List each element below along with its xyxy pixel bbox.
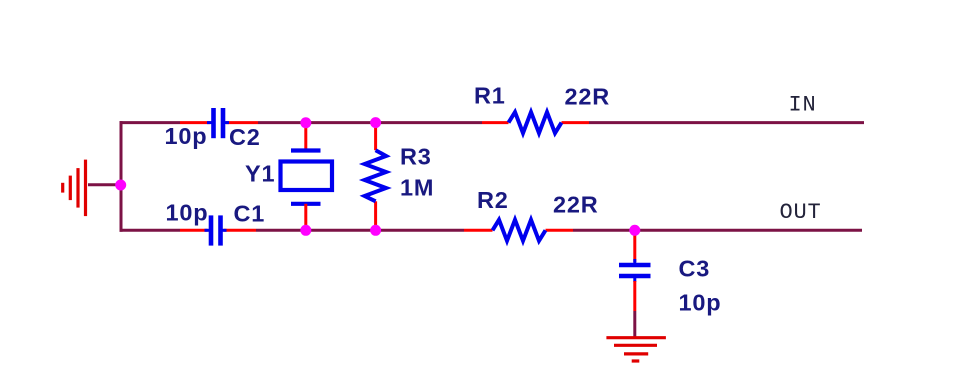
wire: OUT net segment from R2 to open end	[573, 229, 862, 232]
wire: junction to capacitor C3	[633, 230, 636, 262]
svg-text:22R: 22R	[565, 84, 611, 110]
svg-text:R2: R2	[477, 187, 509, 213]
wire: OUT net segment from C1 to R2	[256, 229, 464, 232]
wire: IN net segment from R1 to open end	[589, 121, 864, 124]
junction node: crystal top on IN net	[300, 117, 311, 128]
wire: C3 to ground (red part)	[633, 281, 636, 311]
svg-text:OUT: OUT	[780, 200, 822, 225]
svg-text:C2: C2	[229, 124, 261, 150]
junction node: crystal bottom on OUT net	[300, 225, 311, 236]
svg-text:10p: 10p	[166, 200, 209, 226]
capacitor C3	[619, 259, 651, 282]
wire: IN net segment from C2 to R1	[258, 121, 482, 124]
svg-text:R1: R1	[474, 83, 506, 109]
capacitor C1	[180, 215, 256, 245]
junction node: left ground tap	[115, 180, 126, 191]
svg-text:IN: IN	[789, 93, 817, 118]
junction node: R3 bottom on OUT net	[370, 225, 381, 236]
wire: IN net segment from corner to C2	[120, 121, 181, 124]
svg-text:10p: 10p	[679, 290, 722, 316]
wire: ground stub to left junction	[88, 183, 121, 186]
svg-text:22R: 22R	[553, 191, 599, 217]
svg-text:1M: 1M	[400, 175, 434, 201]
junction node: R3 top on IN net	[370, 117, 381, 128]
wire: OUT net segment from corner to C1	[120, 229, 181, 232]
svg-text:C1: C1	[234, 201, 266, 227]
ground (left earth symbol)	[63, 160, 86, 217]
junction node: C3 tap on OUT net	[629, 225, 640, 236]
capacitor C2	[180, 108, 258, 138]
svg-text:C3: C3	[679, 256, 711, 282]
wire: left vertical from IN net to OUT net	[120, 121, 123, 232]
ground (bottom earth symbol)	[606, 338, 666, 361]
resistor R3	[365, 123, 387, 231]
wire: C3 to ground (dark part)	[633, 311, 636, 337]
crystal Y1	[281, 123, 333, 231]
resistor R2	[464, 220, 573, 241]
svg-text:10p: 10p	[165, 123, 208, 149]
svg-text:Y1: Y1	[245, 161, 275, 187]
svg-text:R3: R3	[400, 144, 432, 170]
resistor R1	[482, 112, 589, 133]
